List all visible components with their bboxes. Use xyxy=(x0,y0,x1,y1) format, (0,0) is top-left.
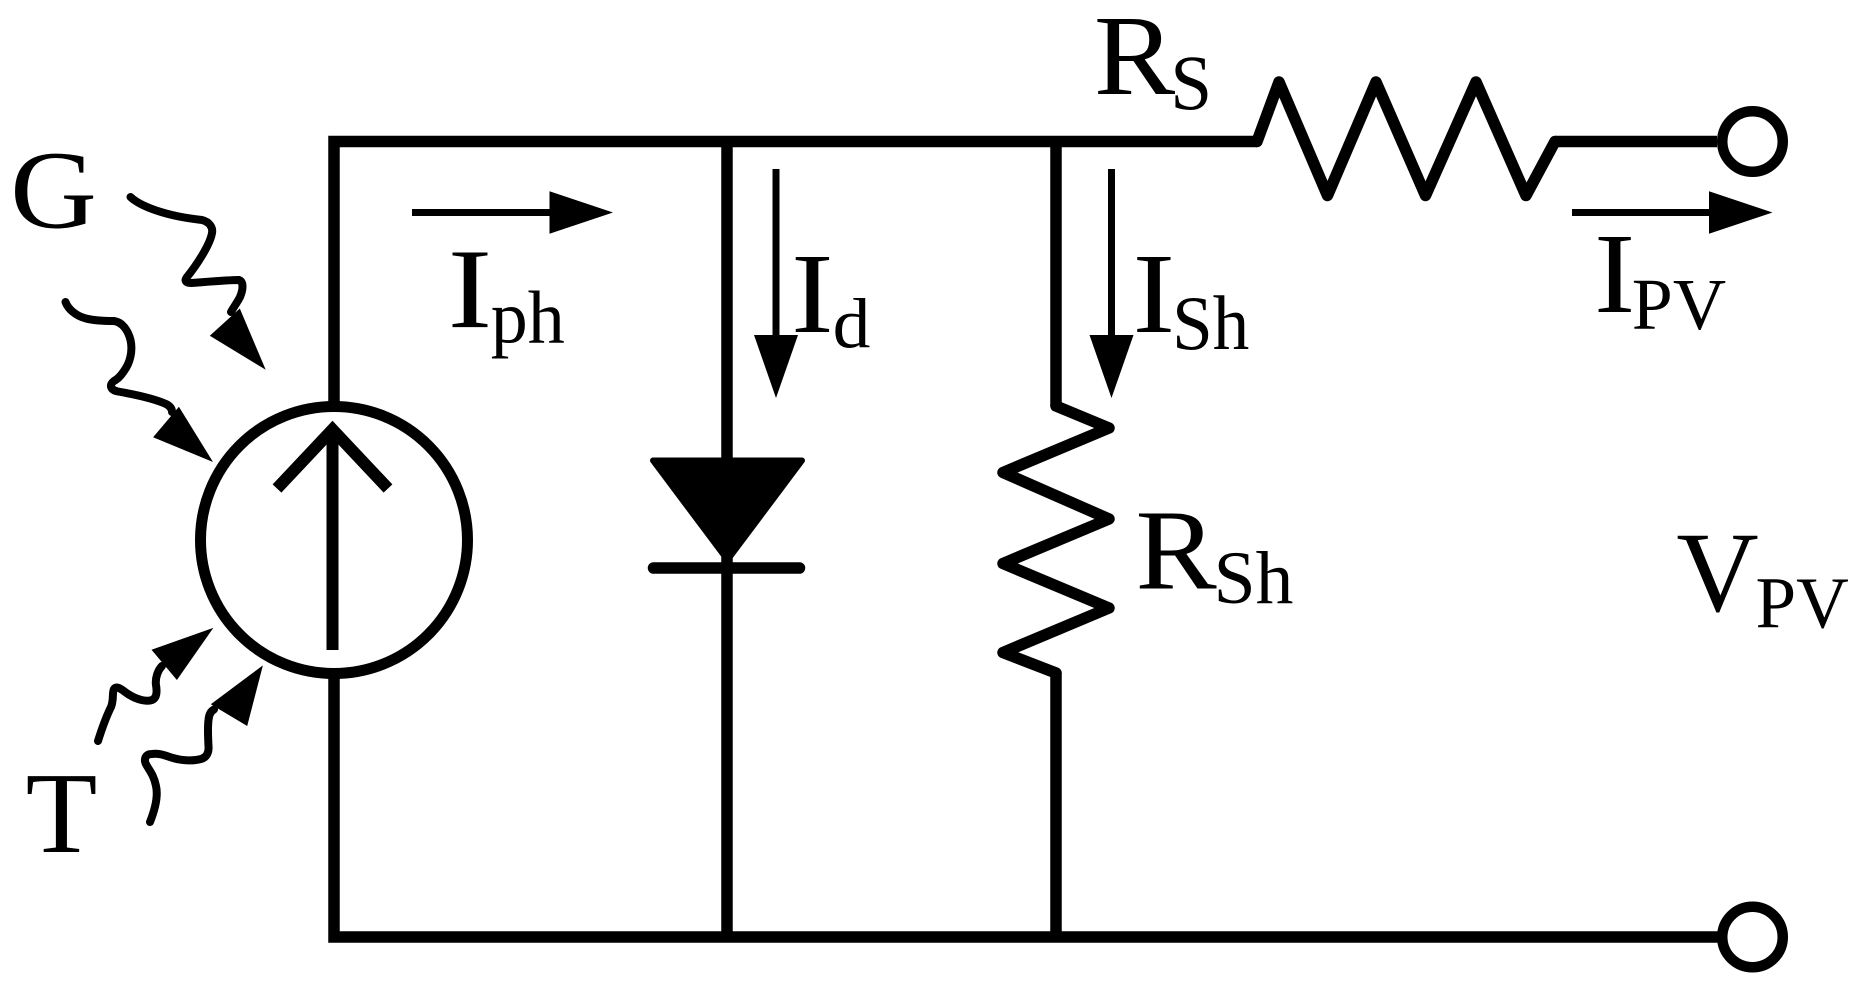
svg-text:Sh: Sh xyxy=(1172,280,1249,366)
svg-text:ph: ph xyxy=(491,276,565,359)
svg-text:V: V xyxy=(1676,509,1758,636)
svg-text:I: I xyxy=(791,230,833,357)
svg-text:R: R xyxy=(1136,487,1217,614)
svg-text:I: I xyxy=(1594,210,1635,337)
svg-text:PV: PV xyxy=(1756,563,1849,644)
svg-text:I: I xyxy=(448,225,493,352)
svg-text:Sh: Sh xyxy=(1214,537,1294,620)
svg-text:S: S xyxy=(1170,39,1212,126)
svg-text:d: d xyxy=(833,285,871,363)
svg-text:R: R xyxy=(1094,0,1175,119)
svg-text:G: G xyxy=(10,130,97,253)
svg-text:PV: PV xyxy=(1632,264,1726,345)
svg-text:I: I xyxy=(1133,230,1175,357)
svg-text:T: T xyxy=(26,749,98,877)
